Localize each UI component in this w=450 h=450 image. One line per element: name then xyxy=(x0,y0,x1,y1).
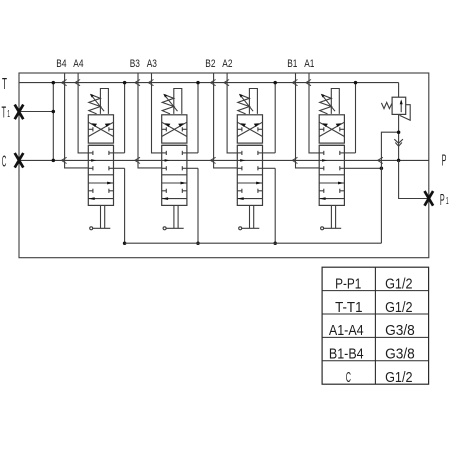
svg-text:C: C xyxy=(346,369,351,386)
svg-text:A1: A1 xyxy=(304,58,314,70)
svg-text:G1/2: G1/2 xyxy=(385,299,412,316)
svg-text:T: T xyxy=(2,104,7,121)
svg-text:A3: A3 xyxy=(147,58,157,70)
svg-text:A2: A2 xyxy=(222,58,232,70)
svg-text:T: T xyxy=(2,76,7,93)
svg-text:B2: B2 xyxy=(205,58,215,70)
svg-text:B1: B1 xyxy=(287,58,297,70)
svg-text:B3: B3 xyxy=(130,58,140,70)
svg-text:G3/8: G3/8 xyxy=(385,322,415,339)
svg-text:A4: A4 xyxy=(73,58,83,70)
svg-text:G1/2: G1/2 xyxy=(385,275,412,292)
svg-text:B1-B4: B1-B4 xyxy=(329,346,364,363)
svg-text:A1-A4: A1-A4 xyxy=(329,322,364,339)
svg-text:G3/8: G3/8 xyxy=(385,346,415,363)
svg-text:P: P xyxy=(442,153,447,170)
svg-text:1: 1 xyxy=(446,195,449,207)
svg-text:P: P xyxy=(440,192,445,209)
svg-text:1: 1 xyxy=(7,108,10,120)
svg-text:G1/2: G1/2 xyxy=(385,369,412,386)
svg-text:C: C xyxy=(2,153,7,170)
svg-text:B4: B4 xyxy=(56,58,66,70)
svg-text:T-T1: T-T1 xyxy=(335,299,362,316)
svg-text:P-P1: P-P1 xyxy=(335,275,361,292)
